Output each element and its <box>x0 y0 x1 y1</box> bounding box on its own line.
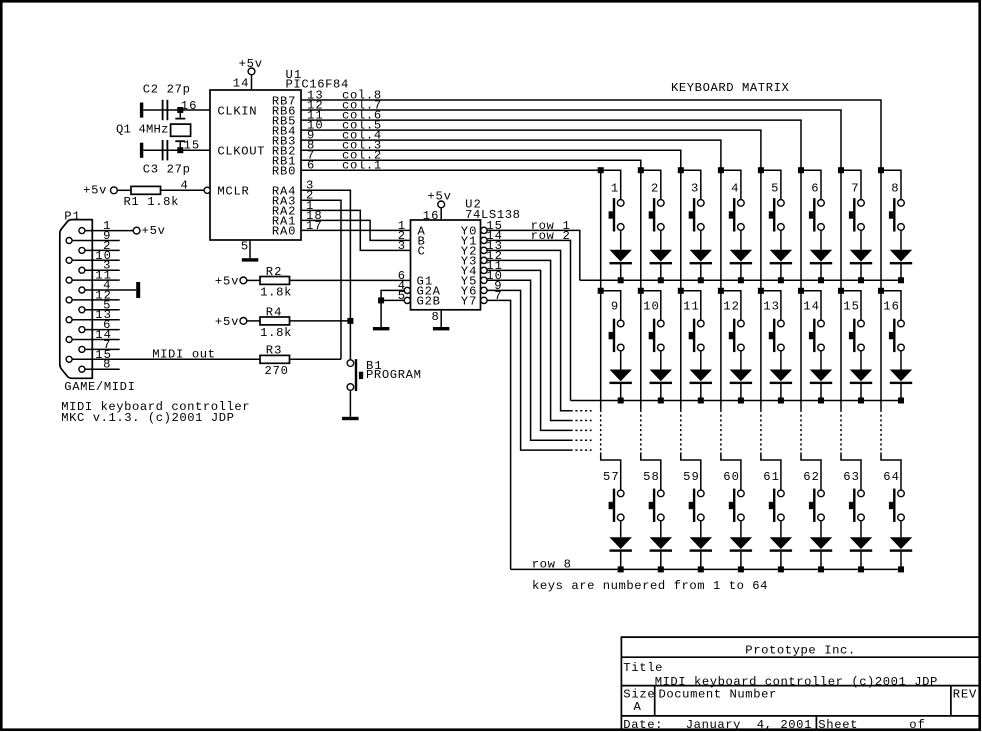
U2 refdes label <box>465 197 481 211</box>
junction key 2 to row line <box>658 277 664 283</box>
R3 value label 270 <box>265 364 289 378</box>
wire col.7 from U1 RB6 to matrix column 7 <box>301 110 841 170</box>
svg-text:2: 2 <box>651 181 658 195</box>
svg-text:15: 15 <box>843 300 859 314</box>
svg-text:+5v: +5v <box>142 224 166 238</box>
date value January 4, 2001 <box>686 718 812 732</box>
P1 pin 12 wire <box>72 299 120 301</box>
key 61 switch <box>761 453 784 523</box>
U1 pin name RA1 <box>272 215 296 229</box>
connector P1 name GAME/MIDI <box>64 380 135 394</box>
key 4 diode <box>730 230 752 280</box>
label Size <box>623 688 654 702</box>
svg-text:of: of <box>909 718 925 732</box>
key 7 diode <box>850 230 872 280</box>
svg-text:Date:: Date: <box>623 718 662 732</box>
svg-text:12: 12 <box>723 300 739 314</box>
key number 61 <box>763 470 779 484</box>
key 3 diode <box>690 230 712 280</box>
key 15 diode <box>850 351 872 401</box>
wire row 2 line <box>571 400 902 402</box>
pin number 1 <box>398 219 405 233</box>
pin number 9 <box>103 229 110 243</box>
svg-text:PROGRAM: PROGRAM <box>366 368 421 382</box>
junction column 7 row feed <box>838 167 844 173</box>
junction key 57 to row line <box>618 566 624 572</box>
U2 G2A inversion bubble <box>404 287 410 293</box>
svg-text:7: 7 <box>851 181 858 195</box>
wire column 1 vertical <box>600 170 602 452</box>
wire B1 to ground <box>349 390 351 417</box>
pin number 6 <box>398 269 405 283</box>
junction column 7 row feed <box>838 288 844 294</box>
power +5v terminal at P1 pin 1 <box>133 224 165 238</box>
key 64 switch <box>881 453 904 523</box>
key 59 switch <box>681 453 704 523</box>
U1 refdes label <box>286 68 302 82</box>
wire U2 pin 8 to ground <box>440 310 442 327</box>
pin number 10 <box>486 269 502 283</box>
wire RA0 to U2 pin A <box>301 229 411 231</box>
wire CLKOUT node <box>143 149 210 151</box>
R1 value label 1.8k <box>124 195 179 209</box>
key number 15 <box>843 300 859 314</box>
key number 2 <box>651 181 658 195</box>
junction G2A-G2B <box>378 297 384 303</box>
key 15 switch <box>841 291 864 352</box>
pin number 9 <box>307 129 314 143</box>
B1 name label PROGRAM <box>366 368 421 382</box>
title block line under company <box>621 656 979 658</box>
key 6 diode <box>810 230 832 280</box>
key number 3 <box>691 181 698 195</box>
key 60 switch <box>721 453 744 523</box>
svg-text:A: A <box>634 700 642 714</box>
label Sheet <box>818 718 857 732</box>
net label row 1 <box>531 219 570 233</box>
pin number 7 <box>307 149 314 163</box>
wire column 7 vertical <box>840 170 842 452</box>
svg-text:Q1 4MHz: Q1 4MHz <box>116 123 168 137</box>
pin number 10 <box>95 249 111 263</box>
wire CLKIN node <box>143 109 210 111</box>
wire U2 G2B to ground node <box>381 300 404 327</box>
wire row 6 from Y5 (continues dotted) <box>487 280 591 440</box>
key 61 diode <box>770 521 792 570</box>
U1 pin name RA2 <box>272 205 296 219</box>
P1 pin 9 contact <box>66 238 72 244</box>
svg-text:16: 16 <box>883 300 899 314</box>
ground bar at P1 pin 4 <box>136 282 140 298</box>
key 9 switch <box>601 291 624 352</box>
document title text <box>655 675 938 689</box>
key 16 diode <box>890 351 912 401</box>
U2 pin name Y2 <box>461 245 477 259</box>
P1 pin 2 wire <box>85 249 120 251</box>
pin number 3 <box>398 239 405 253</box>
svg-text:MIDI keyboard controller (c)20: MIDI keyboard controller (c)2001 JDP <box>655 675 938 689</box>
P1 pin 6 wire <box>85 329 120 331</box>
key number 14 <box>803 300 819 314</box>
key 60 diode <box>730 521 752 570</box>
svg-text:Y7: Y7 <box>461 295 477 309</box>
pin number 14 <box>486 229 502 243</box>
U2 value label 74LS138 <box>465 208 520 222</box>
key 2 diode <box>650 230 672 280</box>
wire U2 G2A to ground node <box>381 290 404 300</box>
pin number 6 <box>307 159 314 173</box>
key number 63 <box>843 470 859 484</box>
key number 13 <box>763 300 779 314</box>
wire +5v to R1 <box>117 189 131 191</box>
pin number 16 <box>423 209 439 223</box>
svg-text:keys are numbered from 1 to 64: keys are numbered from 1 to 64 <box>532 579 768 593</box>
svg-text:C2 27p: C2 27p <box>143 83 190 97</box>
U1 pin name RB4 <box>272 124 296 138</box>
pin number 13 <box>307 88 323 102</box>
junction key 11 to row line <box>698 398 704 404</box>
junction key 15 to row line <box>858 398 864 404</box>
key 13 switch <box>761 291 784 352</box>
junction key 63 to row line <box>858 566 864 572</box>
key 64 diode <box>890 521 912 570</box>
pushbutton B1 <box>347 359 363 391</box>
key 9 diode <box>610 351 632 401</box>
pin number 14 <box>95 328 111 342</box>
ground at U1 pin 5 <box>242 258 258 261</box>
wire col.1 from U1 RB0 to matrix column 1 <box>301 169 601 171</box>
key 1 diode <box>610 230 632 280</box>
wire col.3 from U1 RB2 to matrix column 3 <box>301 150 681 170</box>
wire U2 pin 16 to +5v <box>440 208 442 220</box>
R2 value label 1.8k <box>260 285 291 299</box>
key number 59 <box>683 470 699 484</box>
wire row 8 from Y7 to matrix <box>487 300 511 569</box>
svg-text:Document Number: Document Number <box>659 688 777 702</box>
P1 pin 10 wire <box>72 259 120 261</box>
svg-text:R4: R4 <box>266 306 282 320</box>
junction column 1 row feed <box>598 288 604 294</box>
junction column 3 row feed <box>678 167 684 173</box>
key 14 diode <box>810 351 832 401</box>
svg-text:4: 4 <box>731 181 738 195</box>
svg-text:R3: R3 <box>266 344 282 358</box>
svg-text:RA0: RA0 <box>272 225 296 239</box>
svg-text:57: 57 <box>603 470 619 484</box>
svg-text:59: 59 <box>683 470 699 484</box>
power +5v terminal at U2 pin 16 <box>427 189 451 208</box>
U1 value label PIC16F84 <box>286 78 349 92</box>
R4 value label 1.8k <box>260 326 291 340</box>
junction key 5 to row line <box>778 277 784 283</box>
wire RA3 to R3 MIDI out <box>301 200 341 359</box>
wire U1 pin 14 to +5v <box>251 75 253 90</box>
key number 64 <box>883 470 899 484</box>
key number 6 <box>811 181 818 195</box>
key 2 switch <box>641 170 664 231</box>
U2 Y6 output bubble <box>481 287 487 293</box>
pin number 5 <box>241 239 248 253</box>
junction column 8 row feed <box>878 167 884 173</box>
pin number 10 <box>307 119 323 133</box>
svg-text:14: 14 <box>233 76 249 90</box>
junction column 6 row feed <box>798 167 804 173</box>
P1 pin 11 contact <box>66 277 72 283</box>
net label col.6 <box>342 109 381 123</box>
U2 pin name Y0 <box>461 225 477 239</box>
title block divider date/sheet <box>815 716 817 730</box>
pin number 1 <box>103 219 110 233</box>
R2 refdes label <box>266 265 282 279</box>
U2 pin name B <box>418 235 425 249</box>
ground bar at C2 <box>140 103 143 118</box>
U2 pin name C <box>418 245 425 259</box>
key 62 diode <box>810 521 832 570</box>
key number 1 <box>611 181 618 195</box>
heading KEYBOARD MATRIX <box>671 81 789 95</box>
wire col.6 from U1 RB5 to matrix column 6 <box>301 120 801 170</box>
svg-text:MIDI out: MIDI out <box>152 348 215 362</box>
pin number 5 <box>103 298 110 312</box>
svg-text:63: 63 <box>843 470 859 484</box>
pin number 13 <box>486 239 502 253</box>
svg-text:1.8k: 1.8k <box>260 285 291 299</box>
key 7 switch <box>841 170 864 231</box>
pin number 18 <box>306 209 322 223</box>
svg-text:January 4, 2001: January 4, 2001 <box>686 718 812 732</box>
junction key 13 to row line <box>778 398 784 404</box>
key 3 switch <box>681 170 704 231</box>
svg-text:RB0: RB0 <box>272 165 296 179</box>
U2 pin name G2A <box>417 285 441 299</box>
P1 pin 3 wire <box>85 269 120 271</box>
junction key 7 to row line <box>858 277 864 283</box>
label Date: <box>623 718 662 732</box>
junction key 58 to row line <box>658 566 664 572</box>
P1 pin 8 wire <box>85 368 120 370</box>
junction key 10 to row line <box>658 398 664 404</box>
junction key 60 to row line <box>738 566 744 572</box>
U1 pin name RA3 <box>272 195 296 209</box>
U2 pin name Y5 <box>461 275 477 289</box>
key 13 diode <box>770 351 792 401</box>
wire column 6 vertical <box>800 170 802 452</box>
junction column 5 row feed <box>758 288 764 294</box>
size value A <box>634 700 642 714</box>
pin number 9 <box>494 279 501 293</box>
svg-text:row 8: row 8 <box>532 557 571 571</box>
power +5v terminal at R1 <box>83 184 117 198</box>
pin number 1 <box>306 199 313 213</box>
key 58 diode <box>650 521 672 570</box>
U2 Y0 output bubble <box>481 227 487 233</box>
title block line under size row <box>621 715 979 717</box>
P1 pin 3 contact <box>79 267 85 273</box>
pin number 2 <box>103 239 110 253</box>
junction key 14 to row line <box>818 398 824 404</box>
junction key 62 to row line <box>818 566 824 572</box>
svg-text:16: 16 <box>423 209 439 223</box>
U1 pin name RB5 <box>272 114 296 128</box>
wire row 8 line <box>511 568 901 570</box>
net label col.2 <box>342 149 381 163</box>
junction key 6 to row line <box>818 277 824 283</box>
P1 pin 8 contact <box>79 366 85 372</box>
junction CLKIN-C2-Q1 <box>177 107 183 113</box>
svg-text:64: 64 <box>883 470 899 484</box>
pin number 4 <box>398 279 405 293</box>
net label row 8 <box>532 557 571 571</box>
wire RA4 to R4/B1 node <box>301 190 350 359</box>
svg-text:R2: R2 <box>266 265 282 279</box>
U1 pin name RB1 <box>272 155 296 169</box>
P1 pin 7 wire <box>85 348 120 350</box>
svg-text:58: 58 <box>643 470 659 484</box>
svg-text:REV: REV <box>953 688 977 702</box>
key 5 diode <box>770 230 792 280</box>
junction key 4 to row line <box>738 277 744 283</box>
key number 10 <box>643 300 659 314</box>
U1 pin name RB3 <box>272 134 296 148</box>
P1 pin 1 contact <box>79 228 85 234</box>
pin number 8 <box>307 139 314 153</box>
U1 pin name RB7 <box>272 94 296 108</box>
key 1 switch <box>601 170 624 231</box>
junction key 16 to row line <box>898 398 904 404</box>
pin number 15 <box>486 219 502 233</box>
U2 Y3 output bubble <box>481 257 487 263</box>
pin number 12 <box>95 288 111 302</box>
U2 Y4 output bubble <box>481 267 487 273</box>
junction CLKOUT-C3-Q1 <box>177 147 183 153</box>
U1 pin name MCLR <box>217 185 248 199</box>
P1 pin 12 contact <box>66 297 72 303</box>
svg-text:C3 27p: C3 27p <box>143 162 190 176</box>
wire RA2 to U2 pin C <box>301 210 411 250</box>
net label col.5 <box>342 119 381 133</box>
junction column 5 row feed <box>758 167 764 173</box>
wire +5v to R4 <box>247 320 260 322</box>
title block divider document/rev <box>950 686 952 716</box>
key 11 switch <box>681 291 704 352</box>
wire col.5 from U1 RB4 to matrix column 5 <box>301 130 761 170</box>
net label col.8 <box>342 88 381 102</box>
junction column 4 row feed <box>718 167 724 173</box>
resistor R4 <box>260 317 290 325</box>
ground at B1 <box>342 417 359 420</box>
junction column 1 row feed <box>598 167 604 173</box>
resistor R1 <box>131 186 161 194</box>
U2 pin name Y4 <box>461 265 477 279</box>
key number 12 <box>723 300 739 314</box>
ground bar at C3 <box>140 143 143 158</box>
svg-text:Prototype Inc.: Prototype Inc. <box>745 643 855 657</box>
pin number 8 <box>432 310 439 324</box>
key number 5 <box>771 181 778 195</box>
P1 pin 4 contact <box>79 287 85 293</box>
pin number 7 <box>494 289 501 303</box>
pin number 8 <box>103 358 110 372</box>
key 8 diode <box>890 230 912 280</box>
wire col.2 from U1 RB1 to matrix column 2 <box>301 160 641 170</box>
pin number 4 <box>103 279 110 293</box>
svg-text:11: 11 <box>683 300 699 314</box>
key 5 switch <box>761 170 784 231</box>
svg-text:9: 9 <box>611 300 618 314</box>
connector P1 refdes <box>64 209 80 223</box>
R3 refdes label <box>266 344 282 358</box>
U1 pin name RB0 <box>272 165 296 179</box>
junction column 2 row feed <box>638 167 644 173</box>
junction key 9 to row line <box>618 398 624 404</box>
pin number 11 <box>486 259 502 273</box>
wire R3 to RA3 <box>290 358 342 360</box>
key 4 switch <box>721 170 744 231</box>
label Title <box>623 661 662 675</box>
svg-text:+5v: +5v <box>215 315 239 329</box>
junction column 2 row feed <box>638 288 644 294</box>
wire row 2 from Y1 to matrix <box>487 240 570 400</box>
P1 pin 4 wire <box>85 289 136 291</box>
label REV <box>953 688 977 702</box>
junction key 61 to row line <box>778 566 784 572</box>
company name Prototype Inc. <box>745 643 855 657</box>
pin number 7 <box>103 338 110 352</box>
wire R1 to MCLR <box>161 189 205 191</box>
junction key 3 to row line <box>698 277 704 283</box>
capacitor C2 value label <box>143 83 190 97</box>
svg-text:GAME/MIDI: GAME/MIDI <box>64 380 135 394</box>
svg-text:CLKIN: CLKIN <box>217 104 256 118</box>
svg-text:C: C <box>418 245 425 259</box>
title text MIDI keyboard controller <box>61 400 249 414</box>
junction column 4 row feed <box>718 288 724 294</box>
P1 pin 14 wire <box>72 339 120 341</box>
wire column 5 vertical <box>760 170 762 452</box>
junction key 64 to row line <box>898 566 904 572</box>
wire col.8 from U1 RB7 to matrix column 8 <box>301 100 881 170</box>
svg-text:4: 4 <box>181 179 188 193</box>
U2 pin name A <box>418 225 426 239</box>
key 59 diode <box>690 521 712 570</box>
svg-text:Title: Title <box>623 661 662 675</box>
pin number 16 <box>181 99 197 113</box>
crystal Q1 <box>171 110 191 150</box>
resistor R3 <box>260 355 290 363</box>
capacitor C3 value label <box>143 162 190 176</box>
svg-text:60: 60 <box>723 470 739 484</box>
P1 pin 5 contact <box>79 307 85 313</box>
key 63 switch <box>841 453 864 523</box>
junction R4-RA4-B1 <box>347 318 353 324</box>
svg-text:8: 8 <box>432 310 439 324</box>
U2 Y2 output bubble <box>481 247 487 253</box>
svg-text:Sheet: Sheet <box>818 718 857 732</box>
pin number 13 <box>95 308 111 322</box>
wire row 5 from Y4 (continues dotted) <box>487 270 591 430</box>
ic U1 PIC16F84 body <box>210 90 301 240</box>
key number 62 <box>803 470 819 484</box>
svg-text:8: 8 <box>891 181 898 195</box>
U2 Y5 output bubble <box>481 277 487 283</box>
key number 9 <box>611 300 618 314</box>
U2 Y7 output bubble <box>481 297 487 303</box>
title block line under title row <box>621 685 979 687</box>
capacitor C3 <box>162 140 169 160</box>
key 57 diode <box>610 521 632 570</box>
capacitor C2 <box>162 100 169 120</box>
junction column 3 row feed <box>678 288 684 294</box>
